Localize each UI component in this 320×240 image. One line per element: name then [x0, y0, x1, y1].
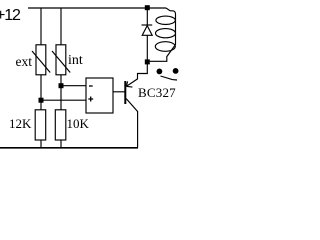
- resistor 10K body: [55, 110, 66, 140]
- wire 10K bottom lead: [60, 140, 62, 148]
- wire bottom rail: [0, 147, 138, 149]
- label 10K: [67, 116, 89, 132]
- wire ext drop from rail: [40, 8, 42, 45]
- thermistor ext body: [32, 45, 50, 75]
- wire int lead to 10K: [60, 75, 62, 110]
- node diode bottom junction: [145, 59, 150, 64]
- diode D1: [142, 25, 153, 60]
- transistor Q1 base bar: [124, 81, 126, 104]
- wire +12 top rail: [28, 7, 166, 9]
- node top rail junction: [145, 5, 150, 10]
- relay contact dot right: [173, 68, 179, 74]
- node ext divider junction: [39, 98, 44, 103]
- label ext: [16, 54, 33, 70]
- relay contact lever: [161, 76, 178, 80]
- wire ext lead to 12K: [40, 75, 42, 110]
- resistor 12K body: [35, 110, 46, 140]
- op-amp plus input sign: [88, 97, 93, 102]
- label +12: [0, 7, 20, 25]
- wire ext node to plus input: [41, 99, 86, 101]
- transistor Q1 collector: [126, 99, 137, 148]
- thermistor int body: [52, 45, 70, 75]
- relay contact dot left: [157, 69, 163, 75]
- wire 12K bottom lead: [40, 140, 42, 148]
- label BC327: [138, 85, 176, 101]
- relay coil K1: [150, 8, 176, 61]
- op-amp minus input sign: [89, 85, 93, 87]
- label 12K: [9, 116, 31, 132]
- transistor Q1 emitter with arrow: [126, 64, 147, 87]
- wire diode drop from rail: [146, 8, 148, 25]
- op-amp U1 comparator box: [86, 78, 113, 113]
- wire int node to minus input: [61, 85, 86, 87]
- label int: [68, 53, 83, 69]
- wire output to base: [113, 91, 125, 93]
- wire int drop from rail: [60, 8, 62, 45]
- node int divider junction: [59, 83, 64, 88]
